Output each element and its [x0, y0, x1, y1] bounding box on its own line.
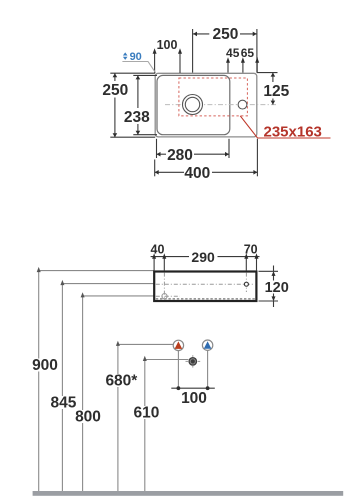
dimension 125: label [262, 83, 291, 97]
dimension 290 label [189, 251, 217, 264]
svg-text:610: 610 [133, 405, 159, 422]
tap dot elevation [244, 282, 248, 286]
dimension 45: riser [227, 61, 229, 73]
line 800 vertical [82, 296, 84, 491]
svg-text:250: 250 [212, 26, 238, 43]
dimension 125: line [257, 73, 278, 105]
bowl dashed red rect [179, 78, 248, 116]
svg-text:65: 65 [241, 46, 255, 60]
svg-text:800: 800 [75, 409, 101, 426]
adjustable height symbol blue [123, 52, 128, 60]
hidden edge dashed [156, 298, 255, 300]
dimension 250 top: terminators [193, 32, 257, 37]
svg-text:238: 238 [124, 109, 150, 126]
line 680 vertical [117, 344, 119, 491]
line 845 vertical [61, 284, 63, 491]
tap hole circle [238, 100, 247, 109]
label 610 [134, 406, 161, 419]
elevation rect [154, 272, 256, 302]
drain vertical dash-dot [163, 273, 165, 300]
dimension 250 top: line [193, 29, 257, 73]
svg-text:40: 40 [151, 242, 165, 256]
label 800 [75, 410, 102, 423]
svg-text:120: 120 [265, 280, 289, 296]
dimension 100 bottom: line [171, 387, 215, 389]
bowl callout leader red [240, 116, 330, 138]
cold water symbol [202, 340, 212, 350]
riser cold to dim [207, 351, 209, 389]
dimension 280: risers [157, 139, 230, 158]
dimension 120 label [264, 281, 290, 294]
basin inner rim rounded rect [157, 75, 230, 134]
svg-text:70: 70 [244, 242, 258, 256]
tap centerline dash-dot elevation [156, 283, 254, 285]
dimension 280: label [166, 148, 194, 162]
svg-text:680*: 680* [105, 373, 138, 390]
dimension 238: line [133, 75, 157, 134]
dimension 250 left: line [110, 73, 155, 137]
svg-text:100: 100 [157, 38, 178, 52]
dimension 120: extensions [259, 266, 279, 308]
dimension 400: risers [155, 139, 258, 177]
svg-text:250: 250 [102, 82, 128, 99]
svg-text:125: 125 [263, 83, 289, 100]
line 800 horizontal [83, 295, 160, 297]
hot water symbol [173, 340, 183, 350]
drain mark elevation [162, 294, 167, 299]
floor bar [33, 491, 344, 496]
svg-text:100: 100 [181, 390, 207, 407]
dimension 250 left: label [101, 82, 130, 96]
svg-text:400: 400 [184, 165, 210, 182]
tap centerline dash-dot [165, 104, 278, 106]
line 845 horizontal [62, 283, 154, 285]
dimension 400: label [184, 166, 212, 180]
label 845 [50, 396, 77, 409]
waste drain symbol [188, 357, 197, 366]
drain circle outer [183, 95, 203, 115]
svg-text:900: 900 [32, 357, 58, 374]
tap vertical dash-dot [245, 273, 247, 292]
dimension 100 top: risers with up arrows [155, 52, 180, 73]
dimension 45-65 right riser [256, 57, 258, 72]
dimension 238: label [123, 109, 152, 123]
drain centerline dash-dot elevation [156, 295, 180, 297]
dimension 40-290-70: line [151, 257, 260, 271]
svg-text:845: 845 [50, 395, 76, 412]
svg-text:235x163: 235x163 [263, 123, 321, 140]
riser hot to dim [177, 351, 179, 388]
drain circle inner [185, 97, 199, 111]
dimension 65: riser [242, 61, 244, 73]
svg-text:280: 280 [167, 147, 193, 164]
svg-text:290: 290 [191, 249, 215, 265]
label 680* [106, 374, 138, 387]
leader line for 90 [122, 62, 155, 73]
label 900 [32, 359, 59, 372]
line 610 vertical [144, 360, 146, 492]
svg-text:45: 45 [226, 46, 240, 60]
line 900 vertical [38, 271, 40, 491]
line 900 horizontal [39, 270, 155, 272]
basin outer rect [155, 73, 257, 137]
line 610 horizontal [145, 359, 189, 361]
line 680 horizontal [118, 343, 173, 345]
